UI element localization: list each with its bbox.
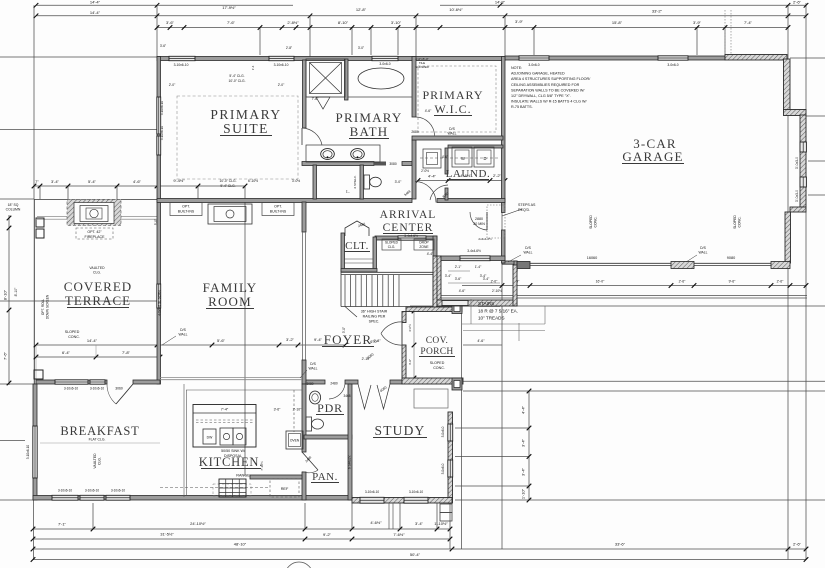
svg-text:PDR: PDR: [317, 401, 343, 415]
svg-text:7'-4": 7'-4": [221, 408, 229, 412]
svg-text:9'-4": 9'-4": [314, 337, 323, 342]
svg-text:3'-6": 3'-6": [160, 44, 166, 48]
svg-text:BATH: BATH: [350, 124, 389, 139]
svg-text:2680: 2680: [411, 130, 419, 134]
svg-text:SLOPED: SLOPED: [733, 215, 737, 229]
svg-text:12'-8": 12'-8": [356, 7, 367, 12]
svg-text:WALL: WALL: [178, 333, 187, 337]
svg-text:OVEN: OVEN: [290, 439, 300, 443]
svg-text:1'-10½": 1'-10½": [434, 521, 448, 526]
svg-text:FIREPLACE: FIREPLACE: [85, 235, 106, 239]
svg-text:CLG.: CLG.: [93, 271, 101, 275]
svg-text:4'-6": 4'-6": [442, 155, 448, 159]
svg-text:4'-6½": 4'-6½": [370, 520, 382, 525]
svg-text:2'-0½: 2'-0½: [421, 169, 429, 173]
svg-text:14'-8": 14'-8": [495, 0, 506, 5]
svg-text:8'-10": 8'-10": [3, 289, 8, 300]
svg-text:4-0x8-0 SL SCRN: 4-0x8-0 SL SCRN: [158, 290, 162, 316]
svg-text:3-10x6-10: 3-10x6-10: [111, 489, 126, 493]
svg-text:FAMILY: FAMILY: [203, 280, 258, 295]
svg-text:W: W: [461, 156, 465, 161]
svg-text:8'-10": 8'-10": [14, 287, 18, 296]
svg-text:7'-4": 7'-4": [744, 20, 753, 25]
svg-text:3'-4": 3'-4": [521, 467, 526, 476]
svg-text:3-10x6-10: 3-10x6-10: [58, 489, 73, 493]
svg-text:3'-0x3-0: 3'-0x3-0: [795, 190, 799, 202]
svg-text:D/S: D/S: [310, 362, 316, 366]
svg-text:2'-8": 2'-8": [286, 46, 292, 50]
svg-text:3'-4": 3'-4": [445, 274, 452, 278]
svg-text:AREA 4 STRUCTURES SUPPORTING F: AREA 4 STRUCTURES SUPPORTING FLOOR/: [511, 77, 591, 81]
svg-text:2'-2": 2'-2": [493, 173, 502, 178]
svg-text:3-0x6-0: 3-0x6-0: [667, 63, 678, 67]
svg-text:5'-4": 5'-4": [88, 179, 97, 184]
svg-text:2480: 2480: [330, 382, 338, 386]
svg-text:ZONE: ZONE: [419, 245, 429, 249]
svg-text:COV.: COV.: [426, 336, 448, 346]
svg-text:18" SQ: 18" SQ: [8, 203, 19, 207]
svg-text:9'-2": 9'-2": [323, 532, 332, 537]
svg-text:2'-0": 2'-0": [169, 83, 176, 87]
svg-text:7'-1": 7'-1": [58, 522, 67, 527]
svg-text:3-10x6-10: 3-10x6-10: [26, 445, 30, 460]
svg-text:5'-0": 5'-0": [154, 219, 158, 225]
svg-text:16'-0": 16'-0": [596, 280, 605, 284]
svg-text:9'-6": 9'-6": [729, 280, 737, 284]
svg-text:OPT. 42": OPT. 42": [87, 230, 102, 234]
svg-text:PORCH: PORCH: [420, 347, 453, 357]
svg-text:2'-10½: 2'-10½: [492, 289, 502, 293]
svg-text:3080: 3080: [306, 382, 313, 386]
svg-text:L.: L.: [346, 189, 350, 194]
svg-text:2x4x4-6½: 2x4x4-6½: [478, 237, 492, 241]
svg-text:14'-4": 14'-4": [90, 10, 101, 15]
svg-text:18 R @ 7 5/16" EA.: 18 R @ 7 5/16" EA.: [478, 309, 518, 314]
svg-text:OPT.: OPT.: [274, 205, 282, 209]
svg-text:COVERED: COVERED: [64, 279, 132, 294]
svg-text:3-4x4-6½: 3-4x4-6½: [404, 234, 418, 238]
svg-text:16060: 16060: [587, 256, 598, 260]
svg-text:4'-4": 4'-4": [427, 252, 434, 256]
svg-text:17'-9½": 17'-9½": [222, 5, 236, 10]
svg-text:4'-4": 4'-4": [521, 405, 526, 414]
svg-text:KITCHEN.: KITCHEN.: [199, 455, 263, 469]
svg-text:3'-6": 3'-6": [455, 277, 462, 281]
svg-text:CONC.: CONC.: [738, 216, 742, 227]
svg-text:2'-6": 2'-6": [679, 280, 687, 284]
svg-text:6'-10½: 6'-10½: [248, 179, 258, 183]
svg-text:SLOPED: SLOPED: [430, 361, 445, 365]
svg-text:INSULATE WALLS W/ R-15 BATTS 4: INSULATE WALLS W/ R-15 BATTS 4 CLG W/: [511, 100, 588, 104]
svg-text:10" TREADS: 10" TREADS: [478, 316, 505, 321]
svg-text:REF: REF: [281, 487, 289, 491]
svg-text:7": 7": [35, 179, 39, 184]
svg-text:2880: 2880: [475, 217, 483, 221]
svg-text:TERRACE: TERRACE: [65, 293, 131, 308]
svg-text:3'-6": 3'-6": [166, 20, 175, 25]
svg-text:50/50 SINK W/: 50/50 SINK W/: [221, 449, 245, 453]
svg-text:3-10x6-10: 3-10x6-10: [174, 63, 189, 67]
svg-text:3-10x6-10: 3-10x6-10: [160, 101, 164, 116]
svg-text:3-10x6-10: 3-10x6-10: [64, 387, 79, 391]
svg-text:SHOWER: SHOWER: [415, 65, 429, 69]
svg-text:3'-0": 3'-0": [395, 180, 403, 184]
svg-text:14'-4": 14'-4": [90, 0, 101, 5]
svg-text:7'-6": 7'-6": [312, 97, 320, 101]
svg-text:7'-6": 7'-6": [227, 20, 236, 25]
svg-text:3-0x6-0: 3-0x6-0: [441, 463, 445, 474]
svg-text:3'-4": 3'-4": [521, 438, 526, 447]
svg-text:GARAGE: GARAGE: [622, 149, 683, 164]
svg-text:VAULTED: VAULTED: [93, 453, 97, 469]
svg-text:10'-0" CLG.: 10'-0" CLG.: [228, 79, 245, 83]
svg-text:SLOPED: SLOPED: [65, 330, 80, 334]
svg-text:3-10x6-10: 3-10x6-10: [160, 126, 164, 141]
svg-text:CENTER: CENTER: [383, 222, 434, 234]
svg-text:3'-9": 3'-9": [515, 19, 524, 24]
svg-text:3-0x6-0: 3-0x6-0: [379, 62, 390, 66]
svg-text:2'-10": 2'-10": [362, 357, 371, 361]
svg-text:CONC.: CONC.: [594, 216, 598, 227]
svg-text:6'-8": 6'-8": [373, 339, 381, 343]
svg-text:SUITE: SUITE: [223, 121, 269, 136]
svg-text:1'-6: 1'-6: [251, 65, 255, 70]
svg-text:6 SHELV.: 6 SHELV.: [348, 455, 352, 469]
svg-text:FLAT CLG.: FLAT CLG.: [89, 438, 106, 442]
svg-text:4'-6": 4'-6": [477, 339, 485, 343]
svg-text:3080: 3080: [389, 162, 397, 166]
svg-text:CEILING ASSEMBLIES REQUIRED FO: CEILING ASSEMBLIES REQUIRED FOR: [511, 83, 580, 87]
svg-text:SLOPED: SLOPED: [589, 215, 593, 229]
svg-text:CLG.: CLG.: [388, 245, 396, 249]
svg-text:3-0x6-0: 3-0x6-0: [528, 63, 539, 67]
svg-text:33'-6": 33'-6": [615, 542, 626, 547]
svg-text:D/S: D/S: [525, 246, 531, 250]
svg-text:3-10x6-10: 3-10x6-10: [365, 490, 380, 494]
svg-text:CLT.: CLT.: [345, 240, 369, 252]
svg-text:CONC.: CONC.: [433, 366, 445, 370]
svg-text:BREAKFAST: BREAKFAST: [60, 424, 139, 438]
svg-text:14'-4": 14'-4": [87, 338, 98, 343]
svg-text:BUILT-INS: BUILT-INS: [270, 210, 287, 214]
svg-text:24'-10½": 24'-10½": [190, 521, 206, 526]
svg-text:3'-6": 3'-6": [274, 408, 282, 412]
svg-text:WALL: WALL: [447, 132, 456, 136]
svg-text:3-10x6-10: 3-10x6-10: [274, 63, 289, 67]
svg-text:6 SHELV.: 6 SHELV.: [353, 175, 357, 188]
svg-text:CLG.: CLG.: [98, 457, 102, 465]
svg-text:2'-6": 2'-6": [793, 0, 802, 5]
svg-text:D/S: D/S: [180, 328, 186, 332]
svg-text:3'-10": 3'-10": [391, 20, 402, 25]
svg-text:STUDY: STUDY: [374, 423, 425, 438]
svg-text:PAN.: PAN.: [312, 471, 338, 483]
svg-text:4'-6": 4'-6": [425, 109, 432, 113]
svg-text:OPT.: OPT.: [182, 205, 190, 209]
svg-text:3'-0": 3'-0": [358, 46, 364, 50]
svg-text:FOYER: FOYER: [324, 332, 373, 347]
svg-text:4'-4": 4'-4": [428, 174, 437, 179]
svg-text:VAULTED: VAULTED: [89, 266, 105, 270]
svg-text:50'-4": 50'-4": [410, 552, 421, 557]
svg-text:D: D: [483, 156, 486, 161]
svg-text:3-10x6-10: 3-10x6-10: [409, 490, 424, 494]
svg-text:PRIMARY: PRIMARY: [422, 88, 483, 102]
svg-text:5'-6": 5'-6": [217, 338, 226, 343]
svg-text:SLOPED: SLOPED: [385, 241, 399, 245]
svg-text:ARRIVAL: ARRIVAL: [380, 209, 437, 221]
svg-text:STEPS AS: STEPS AS: [518, 203, 536, 207]
svg-text:OPT. ROLL: OPT. ROLL: [41, 299, 45, 316]
svg-text:4'-6": 4'-6": [408, 359, 412, 365]
svg-text:RANGE: RANGE: [236, 474, 250, 478]
svg-text:7'-8": 7'-8": [122, 350, 131, 355]
svg-text:2'-1": 2'-1": [455, 265, 462, 269]
svg-text:DW: DW: [207, 436, 213, 440]
svg-text:3'-0x3-0: 3'-0x3-0: [795, 157, 799, 169]
svg-text:SEPARATION WALLS TO BE COVERED: SEPARATION WALLS TO BE COVERED W/: [511, 88, 585, 92]
svg-text:CONC.: CONC.: [68, 335, 80, 339]
svg-text:15'-8": 15'-8": [612, 20, 623, 25]
svg-text:3-10x6-10: 3-10x6-10: [90, 387, 105, 391]
svg-text:1/2" DRYWALL, CLG 5/8" TYPE "X: 1/2" DRYWALL, CLG 5/8" TYPE "X".: [511, 94, 571, 98]
svg-text:R-75 BATTS.: R-75 BATTS.: [511, 105, 533, 109]
svg-text:36" HIGH STAIR: 36" HIGH STAIR: [361, 310, 388, 314]
svg-text:10'-0" CLG.: 10'-0" CLG.: [219, 179, 236, 183]
svg-text:10'-6½": 10'-6½": [449, 7, 463, 12]
svg-text:PRIMARY: PRIMARY: [336, 110, 403, 125]
svg-text:1'-4": 1'-4": [475, 265, 482, 269]
svg-text:BUILT-INS: BUILT-INS: [178, 210, 195, 214]
svg-text:6'-4": 6'-4": [62, 350, 71, 355]
svg-text:3-0x6-0: 3-0x6-0: [441, 426, 445, 437]
svg-text:48'-10": 48'-10": [234, 542, 247, 547]
svg-text:3'-9": 3'-9": [693, 20, 702, 25]
svg-text:2'-8½": 2'-8½": [287, 20, 299, 25]
svg-text:ADJOINING GARAGE, HEATED: ADJOINING GARAGE, HEATED: [511, 72, 565, 76]
svg-text:RAILING PER: RAILING PER: [363, 315, 386, 319]
svg-text:3468: 3468: [343, 394, 350, 398]
svg-text:1'-10": 1'-10": [521, 488, 526, 499]
svg-text:3-4x4-6½: 3-4x4-6½: [467, 249, 481, 253]
svg-text:9'-4" CLG.: 9'-4" CLG.: [220, 184, 235, 188]
svg-text:31'-5½": 31'-5½": [160, 532, 174, 537]
svg-text:NOTE:: NOTE:: [511, 66, 522, 70]
svg-text:LAUND.: LAUND.: [446, 168, 491, 180]
svg-text:W.I.C.: W.I.C.: [434, 102, 471, 116]
svg-text:4'-6": 4'-6": [459, 289, 466, 293]
svg-text:7'-6½": 7'-6½": [393, 532, 405, 537]
svg-text:D/S: D/S: [449, 127, 455, 131]
svg-text:8'-10": 8'-10": [338, 20, 349, 25]
svg-text:3'-2": 3'-2": [286, 337, 295, 342]
svg-text:DOWN SCREEN: DOWN SCREEN: [46, 294, 50, 319]
svg-text:9080: 9080: [727, 256, 735, 260]
svg-text:COLUMN: COLUMN: [6, 208, 21, 212]
svg-text:PRIMARY: PRIMARY: [210, 107, 281, 122]
svg-text:20 MIN: 20 MIN: [473, 222, 485, 226]
svg-text:3-10x6-10: 3-10x6-10: [85, 489, 100, 493]
svg-text:2'-10": 2'-10": [293, 408, 302, 412]
svg-text:2'-6": 2'-6": [793, 542, 802, 547]
svg-text:SPEC.: SPEC.: [369, 320, 380, 324]
svg-text:5'-4" CLG.: 5'-4" CLG.: [229, 74, 244, 78]
svg-text:WALL: WALL: [308, 367, 317, 371]
svg-text:ROOM: ROOM: [208, 294, 252, 309]
svg-text:4'-6": 4'-6": [133, 179, 142, 184]
svg-text:DROP: DROP: [419, 241, 429, 245]
svg-text:WALL: WALL: [523, 251, 532, 255]
svg-text:2'-0": 2'-0": [278, 83, 285, 87]
svg-text:3'-4": 3'-4": [51, 179, 60, 184]
svg-text:3'-4": 3'-4": [483, 277, 490, 281]
svg-text:2'-6": 2'-6": [777, 280, 785, 284]
svg-text:4'-0½: 4'-0½: [408, 324, 412, 332]
svg-text:3060: 3060: [115, 387, 123, 391]
svg-text:WALL: WALL: [698, 251, 707, 255]
svg-text:STAIRS: STAIRS: [478, 301, 494, 306]
svg-text:33'-2": 33'-2": [652, 9, 663, 14]
svg-text:3'-4": 3'-4": [415, 521, 424, 526]
svg-text:D/S: D/S: [700, 246, 706, 250]
svg-text:7'-6": 7'-6": [3, 351, 8, 360]
svg-text:3'-0½: 3'-0½: [292, 179, 300, 183]
